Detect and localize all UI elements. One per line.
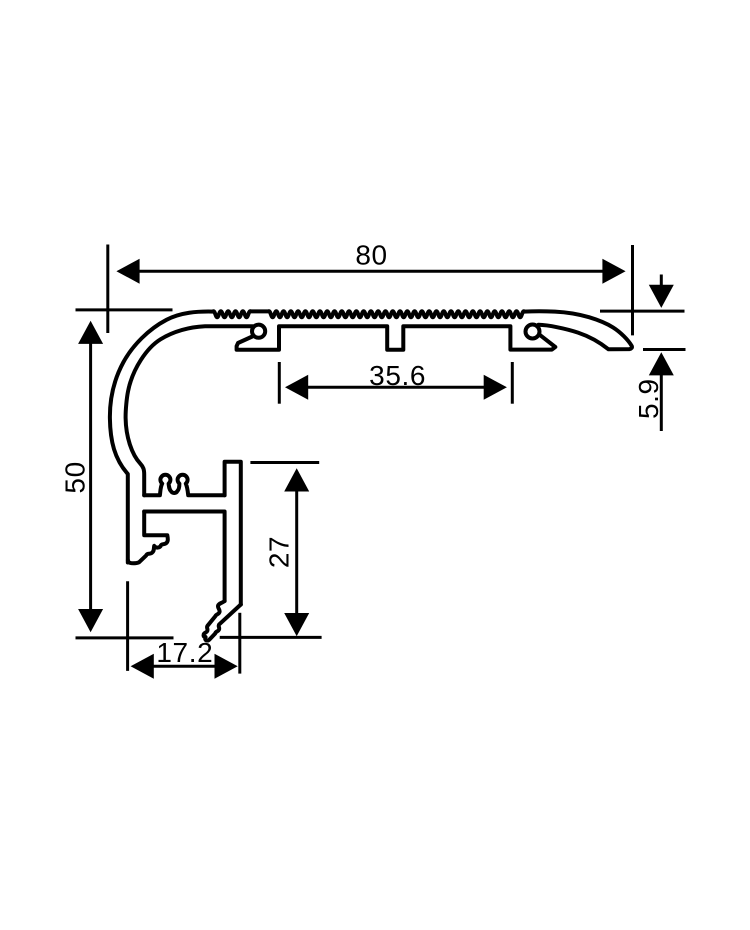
dim 17.2 : left arrowhead: [131, 654, 154, 679]
dim 35.6 : right arrowhead: [484, 375, 507, 400]
stem jagged break (right line with foot): [205, 605, 241, 641]
web top line with carpet gripper bumps: [144, 475, 224, 496]
dim 5.9 : bottom arrowhead: [649, 352, 674, 375]
dim 17.2 : left extension line: [126, 581, 129, 671]
dim 17.2 : dimension line: [152, 665, 216, 668]
svg-text:35.6: 35.6: [369, 360, 426, 391]
serrated tread surface (right section): [269, 311, 524, 317]
smooth gap over left hook: [250, 309, 269, 313]
svg-text:5.9: 5.9: [633, 378, 664, 419]
dim 27 : top extension line: [250, 461, 319, 464]
stem upper left wall, top cap, right wall: [225, 462, 241, 605]
dim 27 : top arrowhead: [284, 468, 309, 491]
dim 17.2 : right arrowhead: [215, 654, 238, 679]
dim 80 : left extension line: [106, 245, 109, 334]
dim 35.6 : left arrowhead: [285, 375, 308, 400]
dim 50 : top arrowhead: [78, 321, 103, 344]
flange bottom left + inner nose curve + inner wall: [126, 326, 253, 495]
dim 27 : bottom arrowhead: [284, 613, 309, 636]
dim 80 : right extension line: [631, 245, 634, 335]
stem jagged break (left line): [204, 601, 225, 637]
dim 27 : dimension line: [295, 490, 298, 615]
dim 5.9 : upper leader line: [660, 275, 663, 288]
left wall lower edge with jagged break: [128, 512, 168, 564]
dim 5.9 : top arrowhead: [649, 285, 674, 308]
dim 27 : bottom extension line: [220, 636, 322, 639]
dim 80 : left arrowhead: [116, 259, 139, 284]
dim 80 : dimension line: [138, 270, 604, 273]
svg-text:50: 50: [59, 461, 90, 493]
dim 5.9 : bottom extension line: [643, 348, 686, 351]
dim 35.6 : left extension line: [278, 362, 281, 404]
svg-text:27: 27: [263, 536, 294, 568]
svg-text:17.2: 17.2: [156, 637, 213, 668]
profile nose outer contour + serrated top: [110, 312, 214, 563]
dim 50 : top extension line: [76, 308, 173, 311]
left hook screw hole: [252, 325, 265, 338]
left hook pocket, flange bottom middle, centre rib, right hook pocket: [237, 326, 556, 350]
svg-text:80: 80: [355, 240, 387, 271]
dim 35.6 : right extension line: [511, 362, 514, 404]
dim 50 : bottom arrowhead: [78, 609, 103, 632]
serrated tread surface (left section): [214, 311, 251, 317]
right hook screw hole: [526, 325, 540, 339]
web bottom line turning into stem left wall: [144, 512, 224, 602]
dim 50 : dimension line: [89, 342, 92, 611]
dim 5.9 : lower leader line: [660, 374, 663, 431]
dim 5.9 : top extension line: [600, 310, 685, 313]
tail outer edge, tip and inner edge: [524, 311, 632, 349]
dim 80 : right arrowhead: [602, 259, 625, 284]
dim 17.2 : right extension line: [238, 613, 241, 674]
dim 35.6 : dimension line: [307, 386, 485, 389]
dim 50 : bottom extension line: [76, 636, 174, 639]
